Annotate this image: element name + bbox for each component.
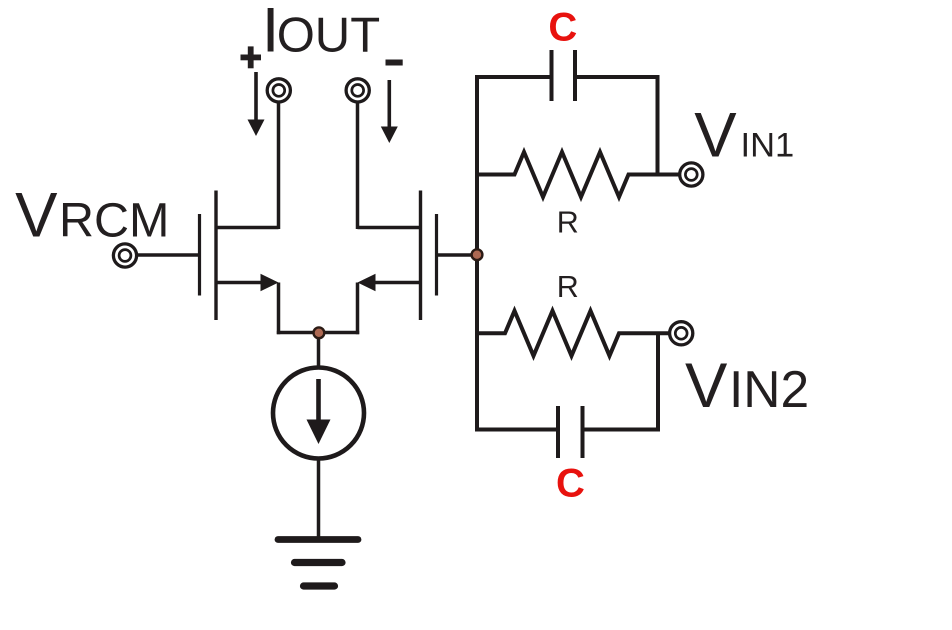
resistor R2	[477, 311, 669, 356]
svg-text:OUT: OUT	[277, 9, 380, 63]
terminal IOUT+ inner	[273, 85, 285, 97]
wire bottom right vertical	[656, 333, 660, 431]
terminal VRCM inner	[119, 250, 131, 262]
svg-text:V: V	[694, 101, 737, 171]
IOUT- current arrow head	[381, 127, 398, 144]
svg-text:R: R	[557, 270, 579, 304]
svg-text:C: C	[556, 461, 585, 505]
terminal VIN2 inner	[675, 327, 687, 339]
svg-text:V: V	[685, 351, 728, 421]
current source I1 arrow head	[307, 420, 331, 445]
wire M2 source down	[356, 283, 360, 335]
wire M2 drain to IOUT- terminal	[356, 103, 360, 230]
wire tail to current source	[317, 333, 321, 368]
current source I1 arrow shaft	[316, 379, 321, 423]
ground bar 3	[304, 582, 335, 589]
svg-text:IN2: IN2	[729, 360, 809, 418]
capacitor C2 right plate	[581, 406, 585, 458]
IOUT+ current arrow head	[248, 120, 265, 137]
ground bar 2	[295, 559, 343, 566]
terminal VIN1 inner	[685, 169, 697, 181]
wire tail horizontal	[277, 331, 359, 335]
wire M1 drain lead	[216, 226, 279, 230]
terminal IOUT- outer	[346, 79, 369, 102]
svg-text:IN1: IN1	[741, 127, 795, 165]
current source I1 circle	[273, 368, 364, 459]
transistor M2 channel bar	[419, 191, 422, 321]
wire M1 drain to IOUT+ terminal	[277, 103, 281, 230]
transistor M1 gate bar	[198, 214, 201, 296]
label minus sign	[386, 60, 403, 66]
IOUT+ current arrow shaft	[254, 72, 258, 122]
wire current source to ground	[317, 459, 321, 539]
wire top cap right	[575, 75, 658, 79]
wire left bus vertical	[475, 75, 479, 432]
transistor M1 source arrow	[261, 274, 279, 291]
terminal IOUT- inner	[352, 85, 364, 97]
label plus sign	[241, 46, 262, 68]
wire M2 gate lead to node	[437, 253, 478, 257]
terminal IOUT+ outer	[267, 79, 290, 102]
transistor M2 gate bar	[435, 214, 438, 296]
resistor R1	[477, 152, 679, 197]
transistor M2 source arrow	[358, 274, 376, 291]
wire M2 drain lead	[358, 226, 421, 230]
wire top cap left	[475, 75, 552, 79]
wire M2 source lead	[372, 281, 421, 285]
transistor M1 channel bar	[214, 191, 217, 321]
svg-text:RCM: RCM	[59, 193, 169, 247]
svg-text:C: C	[548, 5, 577, 49]
capacitor C1 right plate	[573, 50, 577, 101]
capacitor C2 left plate	[556, 406, 560, 458]
node B dot (tail junction)	[314, 327, 325, 338]
wire bottom cap right	[583, 428, 661, 432]
IOUT- current arrow shaft	[387, 80, 391, 129]
terminal VIN2 outer	[670, 322, 693, 345]
svg-text:V: V	[15, 180, 58, 250]
wire top right vertical	[656, 75, 660, 175]
capacitor C1 left plate	[550, 50, 554, 101]
wire M1 gate lead	[138, 253, 200, 257]
wire bottom cap left	[475, 428, 558, 432]
terminal VIN1 outer	[680, 163, 703, 186]
wire M1 source lead	[216, 281, 264, 285]
wire M1 source down	[277, 283, 281, 335]
terminal VRCM outer	[113, 244, 136, 267]
ground bar 1	[278, 536, 358, 543]
node A dot (gate of M2 / input network junction)	[472, 249, 483, 260]
svg-text:R: R	[557, 205, 579, 239]
